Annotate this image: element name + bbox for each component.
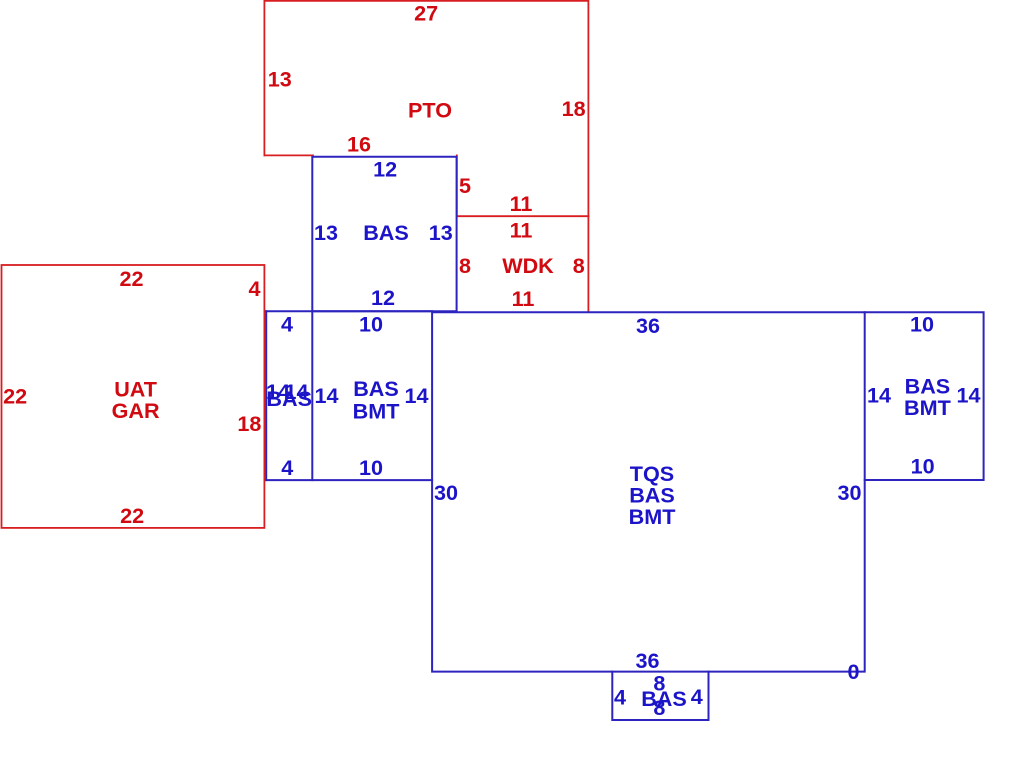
wire PTO step wall (5 ft) [456, 155, 458, 216]
svg-text:8: 8 [653, 695, 665, 720]
svg-text:BAS: BAS [353, 376, 399, 401]
svg-text:18: 18 [237, 411, 261, 436]
room UAT GAR outline [2, 265, 265, 528]
svg-text:36: 36 [636, 313, 660, 338]
svg-text:PTO: PTO [408, 97, 452, 122]
wire small BAS / BAS BMT bottom wall [266, 479, 432, 481]
svg-text:BAS: BAS [363, 220, 409, 245]
room bottom BAS outline [612, 672, 708, 720]
svg-text:36: 36 [635, 648, 659, 673]
wire small BAS / BAS BMT top wall [266, 310, 432, 312]
svg-text:BMT: BMT [629, 504, 676, 529]
svg-text:27: 27 [414, 1, 438, 26]
svg-text:WDK: WDK [502, 253, 554, 278]
wire small BAS / BAS BMT shared wall [311, 311, 313, 480]
svg-text:30: 30 [837, 480, 861, 505]
wire PTO bottom wall segment [264, 154, 313, 156]
room right BAS BMT outline [865, 312, 984, 480]
room TQS BAS BMT outline [432, 312, 865, 671]
svg-text:12: 12 [373, 156, 397, 181]
room BAS (upper) outline [312, 157, 456, 312]
svg-text:GAR: GAR [112, 398, 160, 423]
svg-text:11: 11 [512, 286, 535, 311]
svg-text:4: 4 [248, 276, 260, 301]
svg-text:BMT: BMT [904, 395, 951, 420]
svg-text:11: 11 [510, 217, 533, 242]
svg-text:16: 16 [347, 131, 371, 156]
svg-text:14: 14 [314, 383, 338, 408]
wire WDK right wall [587, 216, 589, 311]
svg-text:13: 13 [314, 220, 338, 245]
svg-text:4: 4 [614, 685, 626, 710]
svg-text:18: 18 [562, 96, 586, 121]
svg-text:10: 10 [359, 312, 383, 337]
svg-text:13: 13 [429, 220, 453, 245]
wire WDK top wall [457, 215, 589, 217]
svg-text:5: 5 [459, 173, 471, 198]
svg-text:22: 22 [119, 266, 143, 291]
svg-text:8: 8 [459, 253, 471, 278]
svg-text:4: 4 [281, 312, 293, 337]
svg-text:0: 0 [847, 659, 859, 684]
svg-text:4: 4 [691, 684, 703, 709]
svg-text:10: 10 [910, 311, 934, 336]
svg-text:14: 14 [867, 383, 891, 408]
svg-text:14: 14 [956, 383, 980, 408]
svg-text:30: 30 [434, 480, 458, 505]
svg-text:10: 10 [911, 454, 935, 479]
svg-text:11: 11 [510, 191, 533, 216]
svg-text:12: 12 [371, 285, 395, 310]
svg-text:22: 22 [120, 503, 144, 528]
svg-text:10: 10 [359, 455, 383, 480]
svg-text:BMT: BMT [353, 398, 400, 423]
room PTO outline (top/left/right walls) [264, 1, 588, 216]
svg-text:8: 8 [573, 253, 585, 278]
wire small BAS left wall [265, 311, 267, 480]
svg-text:4: 4 [281, 455, 293, 480]
svg-text:14: 14 [284, 379, 308, 404]
svg-text:13: 13 [268, 67, 292, 92]
svg-text:22: 22 [3, 383, 27, 408]
svg-text:14: 14 [404, 383, 428, 408]
